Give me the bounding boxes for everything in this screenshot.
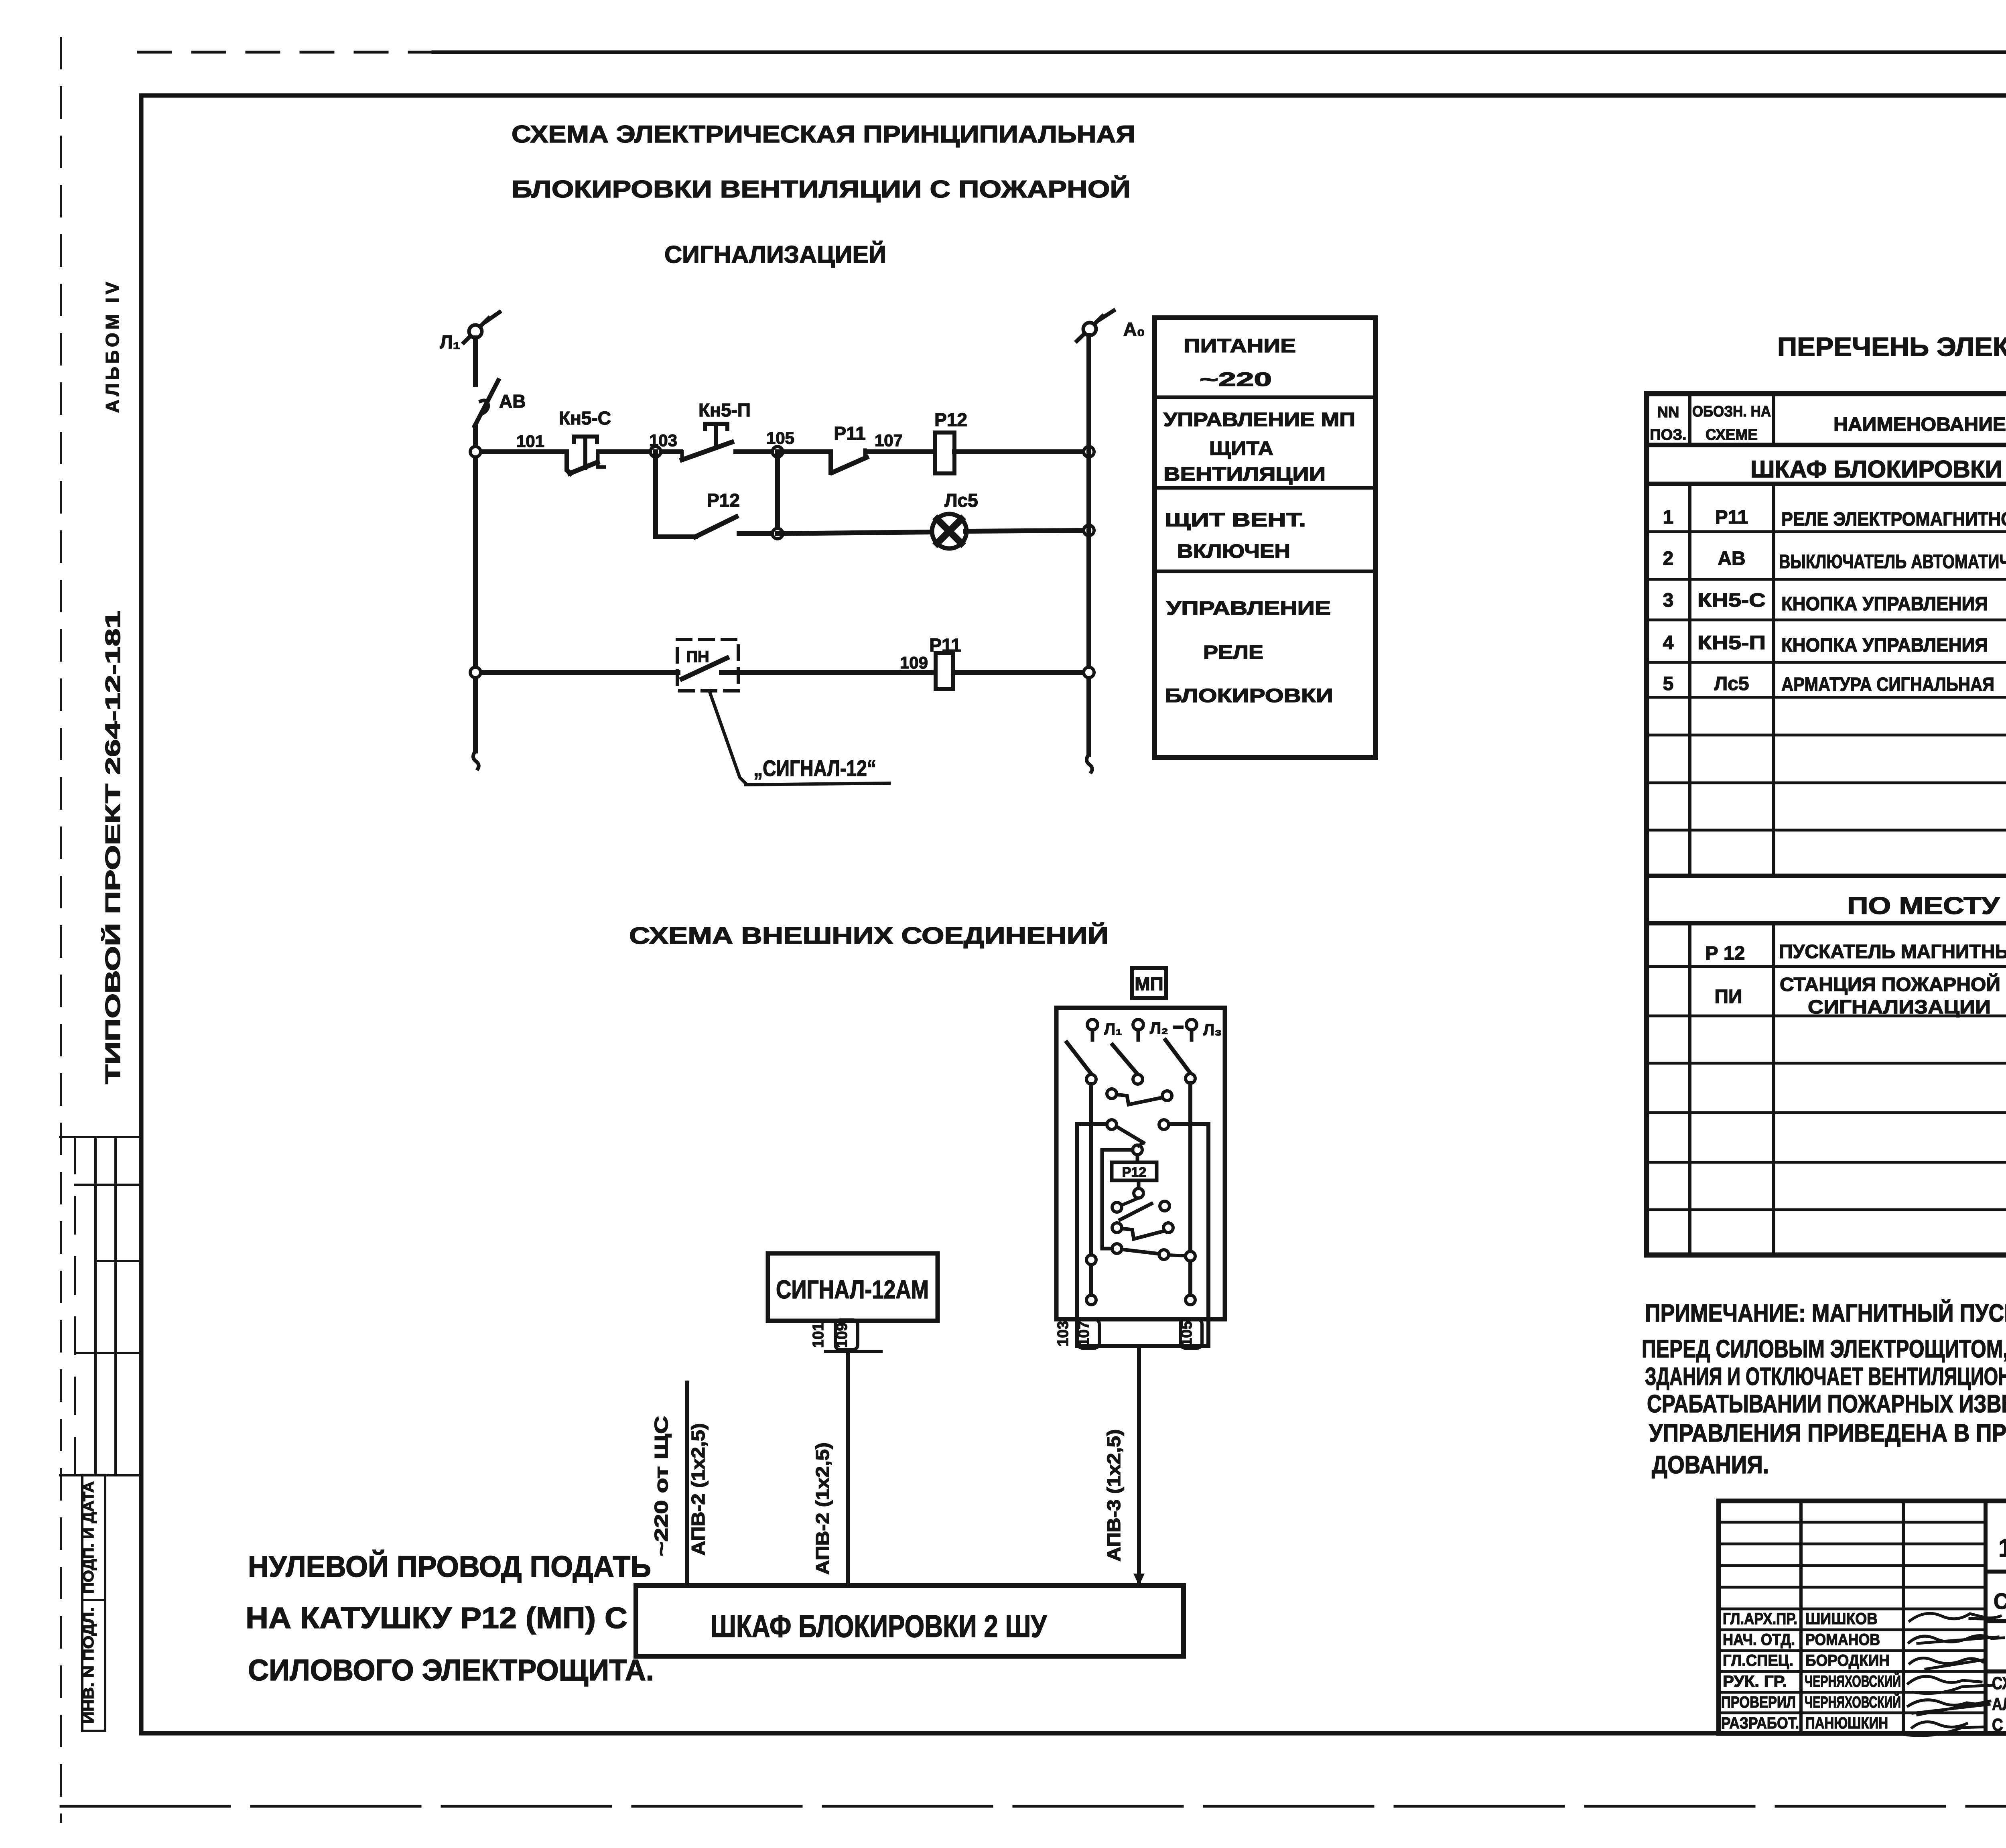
cable APV-2 from Signal	[846, 1351, 850, 1586]
svg-text:5: 5	[1663, 673, 1674, 695]
svg-text:Лс5: Лс5	[1714, 673, 1749, 695]
coil P12 of starter	[1112, 1143, 1157, 1198]
svg-text:ПЕРЕЧЕНЬ ЭЛЕКТРООБОРУДОВАНИЯ: ПЕРЕЧЕНЬ ЭЛЕКТРООБОРУДОВАНИЯ	[1777, 332, 2006, 361]
svg-text:1: 1	[1663, 507, 1674, 528]
aux contact pair B	[1112, 1223, 1173, 1239]
svg-text:101: 101	[516, 432, 544, 451]
wire left bus	[473, 426, 478, 751]
paper edge top	[138, 51, 433, 54]
aux bottom link	[1112, 1244, 1186, 1259]
svg-text:АПВ-2 (1х2,5): АПВ-2 (1х2,5)	[688, 1423, 709, 1556]
svg-text:103: 103	[1055, 1321, 1072, 1346]
svg-text:Р12: Р12	[707, 490, 740, 511]
breaker AB	[475, 380, 498, 426]
svg-text:РЕЛЕ: РЕЛЕ	[1203, 642, 1263, 663]
svg-text:АВ: АВ	[499, 391, 526, 412]
svg-text:УПРАВЛЕНИЕ: УПРАВЛЕНИЕ	[1166, 598, 1331, 619]
svg-text:ДОВАНИЯ.: ДОВАНИЯ.	[1652, 1451, 1769, 1479]
svg-text:НАЧ. ОТД.: НАЧ. ОТД.	[1723, 1631, 1795, 1649]
node right bus rung1	[1084, 447, 1094, 457]
svg-text:ШИШКОВ: ШИШКОВ	[1805, 1610, 1878, 1628]
terminal L1 of MP	[1087, 1019, 1098, 1030]
svg-text:УПРАВЛЕНИЯ ПРИВЕДЕНА В ПРОЕКТЕ: УПРАВЛЕНИЯ ПРИВЕДЕНА В ПРОЕКТЕ СИЛОВОГО …	[1649, 1420, 2006, 1447]
svg-text:СХЕМА ЭЛЕКТРИЧЕСКАЯ ПРИНЦИПИ: СХЕМА ЭЛЕКТРИЧЕСКАЯ ПРИНЦИПИАЛЬНАЯ	[512, 121, 1135, 148]
wire left bus upper	[473, 338, 478, 384]
main contact blade L3	[1165, 1040, 1191, 1074]
starter MP enclosure	[1056, 1008, 1225, 1319]
svg-text:СХЕМА ЭЛЕКТРИЧЕСКАЯ ПРИНЦИПИ-: СХЕМА ЭЛЕКТРИЧЕСКАЯ ПРИНЦИПИ-	[1992, 1673, 2006, 1693]
lamp Lc5	[932, 514, 966, 548]
terminal 105 box	[1180, 1319, 1202, 1348]
svg-text:ШКАФ БЛОКИРОВКИ (2 ШУ): ШКАФ БЛОКИРОВКИ (2 ШУ)	[1750, 456, 2006, 483]
node under L3	[1186, 1074, 1195, 1083]
main contact blade L2	[1113, 1045, 1138, 1074]
fire alarm contact PN (dashed box)	[677, 640, 738, 691]
supply cable 220	[685, 1383, 689, 1586]
svg-text:ПЕРЕД СИЛОВЫМ ЭЛЕКТРОЩИТОМ, ПИ: ПЕРЕД СИЛОВЫМ ЭЛЕКТРОЩИТОМ, ПИТАЮЩИМ ВСЮ…	[1642, 1335, 2006, 1363]
svg-text:ТИПОВОЙ ПРОЕКТ 264-12-181: ТИПОВОЙ ПРОЕКТ 264-12-181	[101, 611, 125, 1084]
svg-text:СХЕМА ВНЕШНИХ СОЕДИНЕНИЙ: СХЕМА ВНЕШНИХ СОЕДИНЕНИЙ	[629, 923, 1109, 949]
right bus of MP	[1188, 1083, 1192, 1300]
svg-text:Р11: Р11	[834, 423, 865, 444]
wire branch to node under 105	[739, 531, 778, 536]
svg-text:НА КАТУШКУ Р12 (МП) С: НА КАТУШКУ Р12 (МП) С	[246, 1601, 627, 1635]
svg-text:АЛЬНАЯ БЛОКИРОВКИ ВЕНТИЛЯЦИИ: АЛЬНАЯ БЛОКИРОВКИ ВЕНТИЛЯЦИИ	[1992, 1694, 2006, 1714]
svg-text:АРМАТУРА СИГНАЛЬНАЯ: АРМАТУРА СИГНАЛЬНАЯ	[1781, 674, 1994, 695]
contact P12 (NO self-hold)	[695, 517, 736, 537]
svg-text:СХЕМЕ: СХЕМЕ	[1706, 426, 1758, 443]
node bottom right	[1084, 667, 1094, 678]
svg-text:СИГНАЛИЗАЦИЕЙ: СИГНАЛИЗАЦИЕЙ	[664, 241, 886, 268]
svg-text:1978: 1978	[1998, 1533, 2006, 1562]
svg-text:МП: МП	[1135, 973, 1163, 994]
wire coil to right bus	[954, 449, 1089, 454]
svg-text:ПРОВЕРИЛ: ПРОВЕРИЛ	[1721, 1694, 1796, 1711]
svg-text:РЕЛЕ ЭЛЕКТРОМАГНИТНОЕ: РЕЛЕ ЭЛЕКТРОМАГНИТНОЕ	[1781, 509, 2006, 530]
svg-text:Р11: Р11	[1715, 507, 1748, 528]
svg-text:NN: NN	[1657, 404, 1679, 421]
terminal tick	[826, 1350, 881, 1353]
svg-text:ШКАФ БЛОКИРОВКИ 2 ШУ: ШКАФ БЛОКИРОВКИ 2 ШУ	[711, 1608, 1047, 1644]
wire node105 down	[775, 452, 780, 534]
horizontals	[1647, 443, 2006, 447]
aux contact top pair	[1107, 1089, 1172, 1105]
wire 107 segment	[868, 449, 935, 454]
svg-text:~220 от ЩС: ~220 от ЩС	[651, 1416, 672, 1556]
svg-text:109: 109	[834, 1322, 851, 1348]
svg-text:ИНВ. N ПОДЛ.: ИНВ. N ПОДЛ.	[80, 1607, 97, 1724]
node left bus bottom	[1086, 1295, 1096, 1305]
left margin cell lines	[60, 1136, 141, 1138]
coil block side wire	[1102, 1150, 1133, 1249]
terminal 109 box	[835, 1320, 858, 1350]
left margin: Подп. и дата cell	[82, 1475, 105, 1600]
svg-text:ОБОЗН. НА: ОБОЗН. НА	[1692, 403, 1771, 420]
svg-text:Р12: Р12	[934, 409, 967, 430]
node under 105	[772, 528, 783, 539]
aux contact pair A	[1112, 1198, 1169, 1220]
svg-text:СИЛОВОГО ЭЛЕКТРОЩИТА.: СИЛОВОГО ЭЛЕКТРОЩИТА.	[248, 1653, 654, 1687]
svg-text:НУЛЕВОЙ ПРОВОД ПОДАТЬ: НУЛЕВОЙ ПРОВОД ПОДАТЬ	[248, 1549, 651, 1583]
svg-text:УПРАВЛЕНИЕ МП: УПРАВЛЕНИЕ МП	[1163, 409, 1355, 431]
svg-text:4: 4	[1663, 632, 1674, 654]
svg-text:ПО МЕСТУ: ПО МЕСТУ	[1847, 892, 2000, 919]
contact P11 (NC)	[831, 450, 867, 473]
svg-text:Р 12: Р 12	[1706, 943, 1745, 964]
node 105	[772, 447, 783, 457]
paper edge left	[60, 38, 62, 1822]
svg-text:2: 2	[1663, 548, 1674, 569]
svg-text:ГЛ.АРХ.ПР.: ГЛ.АРХ.ПР.	[1723, 1610, 1797, 1628]
svg-text:109: 109	[900, 653, 928, 672]
svg-text:РОМАНОВ: РОМАНОВ	[1805, 1631, 1880, 1649]
svg-text:БЛОКИРОВКИ ВЕНТИЛЯЦИИ С ПО: БЛОКИРОВКИ ВЕНТИЛЯЦИИ С ПОЖАРНОЙ	[512, 176, 1131, 203]
svg-text:АЛЬБОМ IV: АЛЬБОМ IV	[102, 279, 123, 413]
svg-text:107: 107	[1076, 1321, 1092, 1346]
svg-text:ГЛ.СПЕЦ.: ГЛ.СПЕЦ.	[1723, 1652, 1793, 1669]
svg-text:ЩИТА: ЩИТА	[1209, 438, 1273, 459]
node right bus bottom	[1186, 1295, 1195, 1305]
svg-text:НАИМЕНОВАНИЕ: НАИМЕНОВАНИЕ	[1833, 414, 2006, 435]
svg-text:ПОДП. И ДАТА: ПОДП. И ДАТА	[80, 1481, 97, 1594]
svg-text:ПН: ПН	[686, 648, 709, 666]
svg-text:ВЕНТИЛЯЦИИ: ВЕНТИЛЯЦИИ	[1163, 464, 1326, 485]
svg-text:ПИТАНИЕ: ПИТАНИЕ	[1184, 335, 1296, 357]
branch wire from node 103 down	[656, 452, 695, 537]
svg-text:РАЗРАБОТ.: РАЗРАБОТ.	[1721, 1714, 1799, 1732]
pushbutton Kn5-P (NO)	[682, 424, 733, 460]
terminal Ao	[1077, 311, 1114, 341]
svg-text:АПВ-2 (1х2,5): АПВ-2 (1х2,5)	[812, 1442, 833, 1575]
svg-text:БЛОКИРОВКИ: БЛОКИРОВКИ	[1165, 685, 1333, 707]
svg-text:105: 105	[766, 428, 794, 447]
node left bus rung1	[470, 447, 481, 457]
signatures (handwritten squiggles)	[1902, 1613, 2004, 1736]
svg-text:ВКЛЮЧЕН: ВКЛЮЧЕН	[1177, 541, 1290, 562]
wire bottom rung right part	[721, 670, 936, 675]
svg-text:ПРИМЕЧАНИЕ: МАГНИТНЫЙ ПУСКАТЕЛ: ПРИМЕЧАНИЕ: МАГНИТНЫЙ ПУСКАТЕЛЬ Р12 УСТА…	[1645, 1299, 2006, 1327]
cabinet box 2ShU	[636, 1586, 1184, 1656]
svg-text:ЗДАНИЯ И ОТКЛЮЧАЕТ ВЕНТИЛЯЦИОН: ЗДАНИЯ И ОТКЛЮЧАЕТ ВЕНТИЛЯЦИОННЫЕ УСТАНО…	[1645, 1363, 2006, 1391]
svg-text:„СИГНАЛ-12“: „СИГНАЛ-12“	[753, 755, 876, 781]
svg-text:ЧЕРНЯХОВСКИЙ: ЧЕРНЯХОВСКИЙ	[1805, 1693, 1901, 1711]
wire to node 103	[598, 449, 778, 454]
main contact blade L1	[1067, 1042, 1092, 1074]
svg-text:ЩИТ ВЕНТ.: ЩИТ ВЕНТ.	[1165, 510, 1306, 531]
svg-text:АПВ-3 (1х2,5): АПВ-3 (1х2,5)	[1103, 1429, 1124, 1562]
node right bus rung2	[1084, 525, 1094, 536]
node under L1	[1086, 1074, 1096, 1084]
svg-text:103: 103	[649, 431, 677, 450]
svg-text:Л₁: Л₁	[440, 331, 460, 352]
svg-text:А₀: А₀	[1123, 319, 1145, 339]
wire lamp to right bus	[966, 530, 1089, 531]
verticals	[1688, 394, 1691, 445]
svg-text:~220: ~220	[1200, 369, 1272, 390]
pushbutton Kn5-C (NC)	[567, 437, 604, 473]
svg-text:ПАНЮШКИН: ПАНЮШКИН	[1805, 1714, 1888, 1732]
svg-text:КН5-П: КН5-П	[1697, 632, 1766, 654]
node under L2	[1133, 1074, 1143, 1084]
hook at right bus bottom	[1086, 754, 1092, 772]
terminal 107 box	[1078, 1319, 1099, 1348]
svg-text:ПОЗ.: ПОЗ.	[1650, 426, 1686, 443]
inner enclosure	[1077, 1120, 1208, 1346]
svg-text:Кн5-П: Кн5-П	[698, 400, 751, 420]
svg-text:ЧЕРНЯХОВСКИЙ: ЧЕРНЯХОВСКИЙ	[1805, 1672, 1901, 1690]
left margin: Инв. N подл. cell	[82, 1600, 105, 1731]
wire lamp rung	[778, 532, 934, 534]
svg-text:Лс5: Лс5	[944, 490, 978, 511]
cable APV-3 from MP	[1137, 1348, 1141, 1582]
wire bottom rung left	[475, 670, 678, 675]
svg-text:Л₂: Л₂	[1150, 1019, 1168, 1037]
node right bus lower	[1186, 1251, 1195, 1261]
svg-text:ПУСКАТЕЛЬ МАГНИТНЫЙ: ПУСКАТЕЛЬ МАГНИТНЫЙ	[1779, 940, 2006, 963]
wire coil P11 to right bus	[953, 670, 1089, 675]
svg-text:101: 101	[810, 1322, 827, 1348]
relay coil P11	[936, 653, 953, 689]
svg-text:СТАНЦИЯ ПОЖАРНОЙ: СТАНЦИЯ ПОЖАРНОЙ	[1780, 973, 2000, 995]
svg-text:КНОПКА УПРАВЛЕНИЯ: КНОПКА УПРАВЛЕНИЯ	[1781, 593, 1988, 615]
svg-text:БОРОДКИН: БОРОДКИН	[1805, 1652, 1890, 1669]
wire 101 segment	[475, 449, 567, 454]
leader line to Signal-12	[709, 691, 745, 783]
terminal L3 of MP	[1186, 1019, 1197, 1030]
svg-text:КН5-С: КН5-С	[1697, 590, 1766, 611]
svg-text:АВ: АВ	[1718, 548, 1745, 569]
relay coil P12	[935, 433, 954, 473]
underline	[745, 783, 889, 785]
Signal-12AM box	[768, 1253, 938, 1321]
node 103	[650, 447, 661, 457]
svg-text:С ПОЖАРНОЙ СИГНАЛИЗАЦИЕЙ.: С ПОЖАРНОЙ СИГНАЛИЗАЦИЕЙ.	[1992, 1714, 2006, 1735]
left bus of MP	[1089, 1084, 1093, 1300]
paper edge bottom	[61, 1805, 2006, 1808]
svg-text:Р12: Р12	[1122, 1165, 1147, 1180]
svg-text:Л₃: Л₃	[1203, 1021, 1222, 1039]
terminal L1	[464, 312, 499, 343]
wire right bus	[1086, 335, 1091, 754]
svg-text:КНОПКА УПРАВЛЕНИЯ: КНОПКА УПРАВЛЕНИЯ	[1781, 635, 1988, 656]
svg-text:Р11: Р11	[929, 635, 961, 656]
svg-text:ВЫКЛЮЧАТЕЛЬ АВТОМАТИЧЕСКИЙ: ВЫКЛЮЧАТЕЛЬ АВТОМАТИЧЕСКИЙ	[1779, 550, 2006, 573]
svg-text:107: 107	[875, 431, 903, 450]
svg-text:3: 3	[1663, 590, 1674, 611]
svg-text:СИГНАЛИЗАЦИИ: СИГНАЛИЗАЦИИ	[1808, 997, 1991, 1018]
starter MP tag box	[1132, 968, 1166, 998]
wire node105 to P11	[778, 449, 831, 454]
terminal L2 of MP	[1133, 1019, 1143, 1030]
svg-text:РУК. ГР.: РУК. ГР.	[1723, 1673, 1787, 1690]
svg-text:Л₁: Л₁	[1104, 1020, 1122, 1038]
node left bus lower	[1086, 1255, 1096, 1265]
svg-text:СРАБАТЫВАНИИ ПОЖАРНЫХ ИЗВЕЩАТЕ: СРАБАТЫВАНИИ ПОЖАРНЫХ ИЗВЕЩАТЕЛЕЙ. РАЗВО…	[1647, 1390, 2006, 1418]
svg-text:ПИ: ПИ	[1715, 986, 1742, 1007]
svg-text:СЕЛЬСКИЙ КЛУБ С ЗАЛОМ НА: СЕЛЬСКИЙ КЛУБ С ЗАЛОМ НА 150 МЕСТ	[1994, 1588, 2006, 1614]
svg-text:105: 105	[1178, 1321, 1195, 1346]
hook at left bus bottom	[473, 751, 479, 769]
node bottom left	[470, 667, 481, 678]
svg-text:СИГНАЛ-12АМ: СИГНАЛ-12АМ	[776, 1275, 929, 1304]
svg-text:Кн5-С: Кн5-С	[559, 408, 611, 428]
